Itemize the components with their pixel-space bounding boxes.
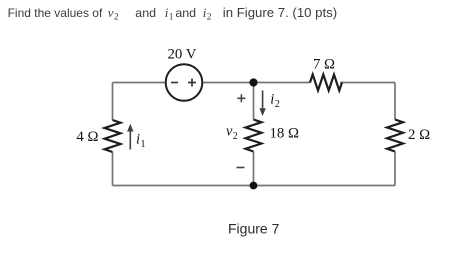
svg-text:1: 1 xyxy=(141,139,146,150)
wire: right vertical upper xyxy=(394,83,396,120)
wire: junction to 7-ohm resistor xyxy=(254,82,311,84)
svg-text:2 Ω: 2 Ω xyxy=(408,127,430,143)
svg-text:v: v xyxy=(108,5,114,20)
svg-text:2: 2 xyxy=(114,12,119,22)
node A (top junction) xyxy=(249,78,257,86)
svg-text:4 Ω: 4 Ω xyxy=(76,129,98,145)
svg-text:2: 2 xyxy=(207,12,212,22)
polarity minus of v2 xyxy=(237,167,245,169)
wire: middle branch lower xyxy=(253,152,255,186)
wire: left vertical upper xyxy=(112,83,114,121)
svg-text:i: i xyxy=(136,132,140,148)
svg-text:in Figure 7. (10 pts): in Figure 7. (10 pts) xyxy=(223,5,337,20)
svg-text:18 Ω: 18 Ω xyxy=(270,125,300,141)
resistor R2 7 ohm xyxy=(310,75,342,91)
svg-text:2: 2 xyxy=(275,99,280,110)
title text xyxy=(8,5,338,23)
node B (bottom junction) xyxy=(250,182,258,190)
polarity plus of v2 xyxy=(237,94,245,102)
svg-text:Find the values of: Find the values of xyxy=(8,6,103,20)
voltage source Vs 20 V xyxy=(166,64,203,101)
svg-text:and: and xyxy=(175,6,196,20)
current arrow i1 xyxy=(127,124,133,150)
wire: source to top junction xyxy=(203,82,254,84)
wire: bottom rail xyxy=(113,185,396,187)
wire: right vertical lower xyxy=(394,152,396,186)
svg-text:7 Ω: 7 Ω xyxy=(313,57,335,73)
svg-text:and: and xyxy=(135,6,156,20)
current arrow i2 xyxy=(259,91,265,117)
wire: top-left segment from corner to source xyxy=(113,82,166,84)
resistor R4 2 ohm xyxy=(387,120,403,152)
svg-text:20 V: 20 V xyxy=(168,47,197,63)
wire: 7-ohm resistor to top-right corner xyxy=(340,82,395,84)
resistor R1 4 ohm xyxy=(105,120,121,152)
resistor R3 18 ohm xyxy=(246,120,262,152)
wire: middle branch upper xyxy=(253,83,255,120)
svg-text:Figure 7: Figure 7 xyxy=(228,221,280,237)
svg-text:2: 2 xyxy=(233,131,238,142)
svg-text:1: 1 xyxy=(169,12,174,22)
svg-text:i: i xyxy=(270,91,274,107)
wire: left vertical lower xyxy=(112,152,114,186)
